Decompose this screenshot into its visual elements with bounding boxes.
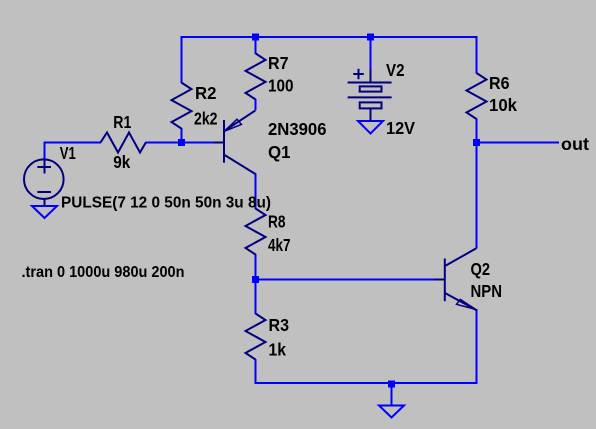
- ground at V1: [32, 206, 57, 218]
- wire bottom rail: [255, 382, 478, 384]
- voltage source V2 middle plate: [348, 96, 392, 98]
- svg-text:2N3906: 2N3906: [268, 119, 327, 139]
- voltage source V1 minus sign: [37, 191, 51, 193]
- svg-text:R1: R1: [113, 112, 131, 132]
- transistor Q1 base lead: [214, 142, 225, 144]
- junction out node: [473, 139, 480, 146]
- wire R6 top: [476, 36, 478, 74]
- voltage source V1 circle: [24, 159, 64, 199]
- wire node B to Q2 base: [255, 279, 436, 281]
- svg-text:R6: R6: [489, 73, 510, 93]
- resistor R3: [246, 314, 266, 360]
- wire top rail: [181, 36, 478, 38]
- resistor R8: [246, 209, 266, 255]
- svg-text:R7: R7: [268, 53, 289, 73]
- junction node A (R2/R1): [178, 139, 185, 146]
- transistor Q2 emitter: [445, 293, 477, 310]
- svg-text:Q2: Q2: [471, 259, 491, 279]
- svg-text:12V: 12V: [386, 118, 415, 138]
- resistor R2: [172, 83, 192, 129]
- svg-text:R2: R2: [195, 83, 217, 103]
- wire Q2 emitter down: [476, 309, 478, 384]
- junction R7 top: [252, 34, 259, 41]
- voltage source V2 bottom lead: [370, 108, 372, 121]
- svg-text:2k2: 2k2: [194, 109, 218, 129]
- voltage source V2 plus sign: [353, 73, 364, 75]
- svg-text:PULSE(7 12 0 50n 50n 3u 8u): PULSE(7 12 0 50n 50n 3u 8u): [61, 195, 271, 212]
- transistor Q2 base lead: [434, 279, 445, 281]
- voltage source V1 bottom lead: [44, 199, 46, 207]
- wire R8 bottom to node B: [255, 254, 257, 280]
- transistor Q1 emitter: [224, 110, 255, 131]
- ground at V2: [358, 121, 383, 134]
- voltage source V2 cell box 2: [360, 102, 382, 108]
- wire Q2 collector up: [476, 144, 478, 249]
- wire R3 bottom: [255, 359, 257, 384]
- svg-text:out: out: [561, 134, 589, 154]
- voltage source V2 cell box 1: [360, 86, 382, 91]
- ground bottom rail: [379, 406, 404, 418]
- transistor Q2 base bar: [444, 259, 446, 302]
- svg-text:10k: 10k: [489, 95, 517, 115]
- svg-text:V1: V1: [60, 143, 76, 163]
- transistor Q2 emitter arrow: [457, 299, 476, 309]
- svg-text:R3: R3: [269, 315, 290, 335]
- wire V1 top stub: [44, 142, 46, 160]
- resistor R1: [101, 133, 146, 153]
- svg-text:9k: 9k: [113, 152, 130, 172]
- svg-text:R8: R8: [268, 211, 286, 231]
- wire Q1 collector to R8: [255, 174, 257, 210]
- transistor Q1 emitter arrow: [224, 119, 241, 131]
- wire R1 to Q1 base: [145, 142, 214, 144]
- wire R6 bottom: [476, 119, 478, 144]
- wire node B to R3: [255, 279, 257, 314]
- svg-text:4k7: 4k7: [268, 235, 291, 255]
- wire out node: [476, 142, 560, 144]
- junction bottom ground: [388, 381, 395, 388]
- junction V2 top: [367, 34, 374, 41]
- voltage source V2 top lead: [370, 69, 372, 83]
- svg-text:.tran 0 1000u 980u 200n: .tran 0 1000u 980u 200n: [22, 264, 185, 281]
- junction node B (R8/R3/Q2): [252, 276, 259, 283]
- transistor Q1 collector: [224, 155, 255, 174]
- wire bottom ground stub: [391, 382, 393, 405]
- wire R2 bottom to node A: [181, 128, 183, 143]
- wire V2 top: [370, 36, 372, 70]
- transistor Q2 collector: [445, 248, 476, 266]
- resistor R7: [246, 53, 266, 99]
- svg-text:100: 100: [268, 76, 294, 96]
- voltage source V2 top plate: [348, 82, 392, 84]
- wire R7 bottom to Q1 emitter: [255, 99, 257, 110]
- wire R7 top: [255, 36, 257, 54]
- transistor Q1 base bar: [223, 120, 225, 163]
- svg-text:1k: 1k: [269, 339, 287, 359]
- svg-text:NPN: NPN: [471, 281, 503, 301]
- resistor R6: [467, 73, 487, 119]
- wire V1 to R1: [44, 142, 102, 144]
- wire left drop to R2: [181, 36, 183, 83]
- voltage source V1 plus sign: [44, 160, 46, 174]
- svg-text:Q1: Q1: [268, 142, 291, 162]
- svg-text:V2: V2: [386, 60, 405, 80]
